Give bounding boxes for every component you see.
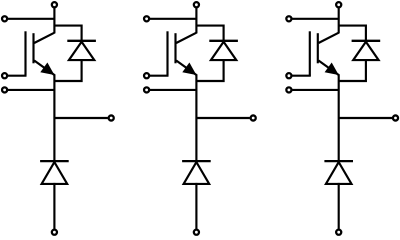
transistor Q1 body bar xyxy=(32,33,34,63)
wire to diode D3a cathode xyxy=(339,26,366,42)
terminal X1.E bottom xyxy=(52,230,57,235)
diode D3a triangle xyxy=(353,42,378,60)
wire diode D2b anode to bottom xyxy=(195,183,197,229)
diode D1b triangle xyxy=(42,162,68,184)
diode D1a triangle xyxy=(69,42,94,60)
diode D2b cathode bar xyxy=(182,160,211,162)
terminal X3.E1 aux emitter xyxy=(286,87,291,92)
diode D2b triangle xyxy=(184,162,210,184)
terminal X3.C top xyxy=(336,2,341,7)
diode D1b cathode bar xyxy=(40,160,69,162)
wire emitter vertical xyxy=(338,74,340,161)
wire aux collector horizontal xyxy=(150,18,197,20)
transistor Q3 gate bar xyxy=(309,31,311,75)
wire diode D1a anode loop xyxy=(54,59,81,81)
diode D3b cathode bar xyxy=(324,160,353,162)
terminal X1.G gate xyxy=(2,73,7,78)
diode D3a cathode bar xyxy=(352,40,381,42)
transistor Q2 body bar xyxy=(174,33,176,63)
transistor Q2 gate bar xyxy=(166,31,168,75)
terminal X1.M midpoint xyxy=(109,115,114,120)
wire diode D2a anode loop xyxy=(196,59,223,81)
wire aux collector horizontal xyxy=(292,18,339,20)
wire diode D1b anode to bottom xyxy=(53,183,55,229)
wire to diode D2a cathode xyxy=(196,26,223,42)
wire aux emitter horizontal xyxy=(8,89,55,91)
terminal X1.C top xyxy=(52,2,57,7)
terminal X3.G gate xyxy=(286,73,291,78)
module M1 xyxy=(2,2,114,235)
transistor Q1 emitter diagonal xyxy=(34,61,54,76)
terminal X3.C1 aux collector xyxy=(286,16,291,21)
wire collector vertical xyxy=(195,8,197,33)
wire emitter vertical xyxy=(195,74,197,161)
wire gate horizontal xyxy=(292,75,311,77)
terminal X2.M midpoint xyxy=(251,115,256,120)
terminal X1.C1 aux collector xyxy=(2,16,7,21)
transistor Q1 gate bar xyxy=(24,31,26,75)
transistor Q1 emitter arrow xyxy=(40,63,54,76)
terminal X2.C1 aux collector xyxy=(144,16,149,21)
wire collector vertical xyxy=(53,8,55,33)
transistor Q2 emitter arrow xyxy=(182,63,196,76)
transistor Q3 collector diagonal xyxy=(319,33,339,43)
terminal X3.M midpoint xyxy=(393,115,398,120)
wire aux collector horizontal xyxy=(8,18,55,20)
transistor Q2 emitter diagonal xyxy=(176,61,196,76)
module M2 xyxy=(144,2,256,235)
terminal X2.C top xyxy=(194,2,199,7)
terminal X2.G gate xyxy=(144,73,149,78)
transistor Q2 collector diagonal xyxy=(176,33,196,43)
terminal X2.E bottom xyxy=(194,230,199,235)
wire gate horizontal xyxy=(150,75,169,77)
diode D2a triangle xyxy=(211,42,236,60)
diode D3b triangle xyxy=(326,162,352,184)
wire diode D3a anode loop xyxy=(339,59,366,81)
wire midpoint output xyxy=(196,117,250,119)
wire aux emitter horizontal xyxy=(150,89,197,91)
wire midpoint output xyxy=(54,117,108,119)
wire aux emitter horizontal xyxy=(292,89,339,91)
diode D1a cathode bar xyxy=(67,40,96,42)
transistor Q3 emitter diagonal xyxy=(319,61,339,76)
terminal X1.E1 aux emitter xyxy=(2,87,7,92)
transistor Q3 emitter arrow xyxy=(325,63,339,76)
diode D2a cathode bar xyxy=(209,40,238,42)
wire gate horizontal xyxy=(8,75,27,77)
wire diode D3b anode to bottom xyxy=(338,183,340,229)
module M3 xyxy=(286,2,398,235)
wire collector vertical xyxy=(338,8,340,33)
terminal X2.E1 aux emitter xyxy=(144,87,149,92)
terminal X3.E bottom xyxy=(336,230,341,235)
wire midpoint output xyxy=(339,117,393,119)
wire emitter vertical xyxy=(53,74,55,161)
wire to diode D1a cathode xyxy=(54,26,81,42)
transistor Q3 body bar xyxy=(317,33,319,63)
transistor Q1 collector diagonal xyxy=(34,33,54,43)
